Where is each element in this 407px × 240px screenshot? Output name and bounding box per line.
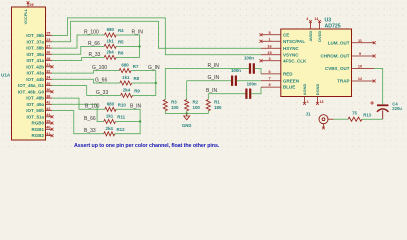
svg-text:680: 680: [107, 101, 115, 106]
AD725 pin 15 VSYNC: [261, 54, 281, 56]
resistor R2 100: [185, 100, 189, 111]
wire C2 to AD725 GREEN pin: [237, 80, 261, 82]
svg-text:B_66: B_66: [84, 116, 96, 122]
svg-text:100: 100: [171, 105, 179, 110]
resistor R10 680: [105, 107, 116, 111]
svg-text:100: 100: [193, 105, 201, 110]
svg-text:J1: J1: [306, 112, 311, 117]
svg-text:15: 15: [267, 51, 271, 55]
svg-text:100n: 100n: [244, 56, 254, 61]
resistor R5 1k1: [104, 44, 116, 48]
wire C1 to AD725 RED pin: [255, 69, 262, 74]
svg-text:8: 8: [268, 83, 270, 87]
junction R_IN bus: [138, 45, 140, 47]
no-connect X: [51, 65, 54, 68]
svg-text:43: 43: [46, 107, 50, 111]
svg-text:1k1: 1k1: [107, 38, 115, 43]
svg-text:GND: GND: [182, 123, 191, 128]
U1A pin 23 IOT_37a: [46, 41, 53, 43]
svg-text:39: 39: [46, 119, 50, 123]
svg-text:IOT_41a: IOT_41a: [26, 58, 44, 63]
svg-text:C4: C4: [392, 101, 398, 106]
wire R2 to GND rail: [186, 111, 188, 114]
svg-text:G_66: G_66: [95, 77, 107, 83]
wire IOT_37a to AD725 HSYNC (top bus 2): [52, 21, 261, 48]
wire G_IN to R2 top: [186, 81, 188, 100]
svg-text:IOT_50b: IOT_50b: [26, 108, 44, 113]
U1A pin 27 IOT_38b: [46, 47, 53, 49]
U1A pin 25 IOT_36b: [46, 34, 53, 36]
U1A pin 40 RGB1: [46, 128, 53, 130]
svg-text:B_33: B_33: [84, 128, 96, 134]
svg-text:CHROM_OUT: CHROM_OUT: [321, 54, 350, 59]
svg-text:R6: R6: [118, 51, 124, 56]
svg-text:10: 10: [358, 65, 362, 69]
svg-text:1k1: 1k1: [122, 75, 130, 80]
U1A pin 42 IOT_49a: [46, 103, 53, 105]
svg-text:GREEN: GREEN: [283, 78, 299, 83]
no-connect X: [309, 20, 312, 23]
svg-text:41: 41: [46, 132, 50, 136]
no-connect X: [318, 20, 321, 23]
svg-text:IOT_43a: IOT_43a: [26, 71, 44, 76]
wire R_IN to R3 top: [164, 69, 166, 100]
AD725 pin 2 AGND (bottom): [303, 97, 305, 104]
svg-text:CE: CE: [283, 32, 289, 37]
no-connect X: [373, 55, 376, 58]
svg-text:R_IN: R_IN: [208, 63, 220, 69]
svg-text:DVDD: DVDD: [317, 31, 322, 42]
AD725 pin 13 DGND (bottom): [316, 97, 318, 104]
no-connect X: [373, 80, 376, 83]
svg-text:9: 9: [359, 52, 361, 56]
resistor R7 680: [119, 69, 131, 73]
wire G_IN bus (G group): [131, 71, 156, 96]
svg-text:2k4: 2k4: [106, 126, 114, 131]
no-connect X: [51, 122, 54, 125]
no-connect X: [260, 40, 263, 43]
svg-text:5: 5: [268, 31, 270, 35]
wire IOT_45a_G1 to R9 (net G_33): [52, 86, 121, 96]
wire R5 to R_IN bus: [116, 45, 139, 47]
svg-text:RED: RED: [283, 72, 293, 77]
svg-text:TRAP: TRAP: [337, 79, 349, 84]
U1A pin 36 IOT_46b_G0: [46, 91, 53, 93]
svg-text:R_IN: R_IN: [132, 29, 144, 35]
wire J1 to R13: [334, 118, 349, 120]
resistor R12 2k4: [104, 132, 115, 136]
svg-text:75: 75: [352, 111, 357, 116]
wire R_IN bus (R group): [116, 35, 140, 57]
svg-text:28: 28: [46, 57, 50, 61]
ground symbol GND: [184, 113, 190, 119]
capacitor C4 220u polarized: [377, 103, 388, 108]
svg-text:IOT_46b_G0: IOT_46b_G0: [18, 89, 45, 94]
AD725 pin 10 CVBS_OUT: [352, 67, 375, 69]
wire IOT_44b to R8 (net G_66): [52, 79, 120, 83]
svg-text:IOT_42b: IOT_42b: [26, 64, 44, 69]
svg-text:R8: R8: [134, 76, 140, 81]
svg-text:IOT_39a: IOT_39a: [26, 52, 44, 57]
resistor R4 680: [105, 33, 117, 37]
wire IOT_38b to R4 (net R_100): [52, 35, 105, 48]
capacitor C2 100n (G channel): [232, 76, 236, 86]
svg-text:26: 26: [46, 51, 50, 55]
wire net B_IN to C3: [208, 93, 246, 95]
AD725 pin 11 LUM_OUT: [352, 42, 375, 44]
U1A pin 38 IOT_48b: [46, 97, 53, 99]
svg-text:IOT_48b: IOT_48b: [26, 96, 44, 101]
svg-text:BLUE: BLUE: [283, 85, 295, 90]
AD725 pin 12 TRAP: [352, 80, 375, 82]
svg-text:R9: R9: [134, 89, 140, 94]
svg-text:6: 6: [268, 70, 270, 74]
svg-text:220u: 220u: [392, 106, 402, 111]
svg-text:R2: R2: [193, 99, 199, 104]
U1A pin 41 RGB2: [46, 134, 53, 136]
svg-text:G_IN: G_IN: [148, 65, 160, 71]
svg-text:R_100: R_100: [84, 29, 99, 35]
no-connect X: [260, 59, 263, 62]
AD725 pin 3 4FSC_CLK: [261, 60, 281, 62]
AD725 pin 6 RED: [261, 73, 281, 75]
svg-text:HSYNC: HSYNC: [283, 46, 300, 51]
no-connect X: [316, 102, 319, 105]
no-connect X: [373, 41, 376, 44]
svg-text:RGB1: RGB1: [31, 127, 44, 132]
svg-text:R13: R13: [363, 112, 371, 117]
svg-text:1: 1: [268, 37, 270, 41]
svg-text:23: 23: [46, 38, 50, 42]
svg-text:G_33: G_33: [96, 90, 108, 96]
svg-text:VSYNC: VSYNC: [283, 52, 299, 57]
svg-text:R12: R12: [117, 127, 126, 132]
svg-text:U1A: U1A: [1, 73, 11, 78]
svg-text:100n: 100n: [231, 68, 241, 73]
no-connect X: [51, 115, 54, 118]
svg-text:3: 3: [268, 57, 270, 61]
svg-text:13: 13: [320, 100, 324, 104]
wire B_IN to R1 top: [207, 94, 209, 100]
wire IOT_36b to AD725 VSYNC (top bus 1): [52, 18, 261, 55]
no-connect X: [303, 102, 306, 105]
U1A pin 31 IOT_42b: [46, 66, 53, 68]
svg-text:16: 16: [267, 44, 271, 48]
connector J1 RCA jack: [319, 115, 328, 124]
svg-text:36: 36: [46, 88, 50, 92]
svg-text:38: 38: [46, 94, 50, 98]
svg-text:7: 7: [268, 77, 270, 81]
junction G_IN bus: [155, 82, 157, 84]
svg-text:IOT_37a: IOT_37a: [26, 39, 44, 44]
U1A pin 35 IOT_45a_G1: [46, 84, 53, 86]
video encoder U3 AD725 body: [281, 29, 352, 97]
svg-text:Assert up to one pin per color: Assert up to one pin per color channel, …: [74, 143, 220, 149]
svg-text:14: 14: [314, 17, 318, 21]
resistor R11 1k1: [104, 119, 116, 123]
U1A pin 26 IOT_39a: [46, 53, 53, 55]
capacitor C1 100n (R channel): [250, 63, 254, 73]
svg-text:NTSC/PAL: NTSC/PAL: [283, 39, 305, 44]
svg-text:680: 680: [121, 63, 129, 68]
no-connect X on U1A top pin: [27, 1, 30, 4]
wire R13 to C4 bottom: [362, 118, 383, 120]
wire IOT_39a to R5 (net R_66): [52, 46, 104, 54]
svg-text:12: 12: [358, 77, 362, 81]
AD725 pin 8 BLUE: [261, 86, 281, 88]
resistor R1 180: [206, 100, 210, 111]
U1A pin 32 IOT_43a: [46, 72, 53, 74]
svg-text:R4: R4: [118, 28, 124, 33]
svg-text:IOT_45a_G1: IOT_45a_G1: [18, 83, 45, 88]
resistor R9 2k4: [121, 93, 133, 97]
svg-text:AD725: AD725: [325, 23, 341, 29]
capacitor C3 100n (B channel): [246, 89, 250, 99]
no-connect X: [51, 90, 54, 93]
U1A pin 39 RGB0: [46, 122, 53, 124]
U1A pin 28 IOT_41a: [46, 59, 53, 61]
svg-text:R10: R10: [118, 103, 127, 108]
AD725 pin 7 GREEN: [261, 80, 281, 82]
wire R11 to B_IN bus: [116, 120, 141, 122]
no-connect X: [51, 134, 54, 137]
AD725 pin 16 HSYNC: [261, 47, 281, 49]
svg-text:4: 4: [306, 17, 308, 21]
wire net G_IN to C2: [187, 80, 232, 82]
svg-text:2k4: 2k4: [123, 87, 131, 92]
no-connect X: [260, 33, 263, 36]
svg-text:31: 31: [46, 63, 50, 67]
svg-text:G_100: G_100: [92, 65, 107, 71]
AD725 pin 9 CHROM_OUT: [352, 55, 375, 57]
svg-text:IOT_38b: IOT_38b: [26, 46, 44, 51]
wire IOT_50b to R12 (net B_33): [52, 111, 104, 134]
U1A pin 44 IOT_51a: [46, 116, 53, 118]
svg-text:29: 29: [30, 3, 34, 7]
resistor R6 2k4: [104, 55, 116, 59]
svg-text:1k1: 1k1: [106, 114, 114, 119]
resistor R3 100: [163, 100, 167, 111]
svg-text:R1: R1: [214, 99, 220, 104]
svg-text:27: 27: [46, 44, 50, 48]
wire IOT_41a to R6 (net R_33): [52, 57, 104, 60]
svg-text:2: 2: [307, 100, 309, 104]
AD725 pin 5 CE: [261, 34, 281, 36]
svg-text:VCCPLL: VCCPLL: [23, 8, 28, 24]
svg-text:180: 180: [214, 105, 222, 110]
svg-text:RGB0: RGB0: [31, 121, 44, 126]
svg-text:RGB2: RGB2: [31, 133, 44, 138]
junction GND rail: [186, 112, 188, 114]
wire IOT_49a to R11 (net B_66): [52, 104, 104, 121]
svg-text:B_IN: B_IN: [130, 104, 142, 110]
svg-text:R3: R3: [171, 99, 177, 104]
svg-text:IOT_49a: IOT_49a: [26, 102, 44, 107]
AD725 pin 4 AVDD (top): [309, 22, 311, 30]
wire IOT_43a to R7 (net G_100): [52, 71, 119, 74]
svg-text:42: 42: [46, 101, 50, 105]
U1A pin 43 IOT_50b: [46, 109, 53, 111]
wire CVBS_OUT to C4: [374, 69, 383, 105]
wire B_IN bus (B group): [115, 109, 140, 134]
svg-text:G_IN: G_IN: [208, 75, 220, 81]
svg-text:IOT_44b: IOT_44b: [26, 77, 44, 82]
svg-text:IOT_36b: IOT_36b: [26, 33, 44, 38]
wire net R_IN to C1: [165, 67, 249, 69]
U1A pin 34 IOT_44b: [46, 78, 53, 80]
svg-text:25: 25: [46, 32, 50, 36]
svg-text:IOT_51a: IOT_51a: [26, 114, 44, 119]
FPGA U1A body: [12, 7, 46, 140]
svg-text:LUM_OUT: LUM_OUT: [328, 40, 350, 45]
U1A top pin VCCPLL pin 29: [27, 3, 29, 7]
svg-text:U3: U3: [325, 18, 332, 24]
svg-text:100n: 100n: [247, 82, 257, 87]
wire GND rail: [165, 111, 208, 114]
AD725 pin 14 DVDD (top): [318, 22, 320, 30]
svg-text:DGND: DGND: [315, 84, 320, 96]
AD725 pin 1 NTSC/PAL: [261, 40, 281, 42]
wire C3 to AD725 BLUE pin: [251, 87, 261, 94]
resistor R8 1k1: [120, 81, 132, 85]
wire R8 to G_IN bus: [132, 82, 156, 84]
svg-text:680: 680: [107, 27, 115, 32]
resistor R13 75: [348, 117, 362, 121]
svg-text:R5: R5: [118, 40, 124, 45]
svg-text:B_100: B_100: [85, 104, 100, 110]
svg-text:35: 35: [46, 82, 50, 86]
no-connect X on J1 shield: [322, 127, 325, 130]
svg-text:11: 11: [358, 39, 362, 43]
svg-text:2k4: 2k4: [106, 49, 114, 54]
svg-text:4FSC_CLK: 4FSC_CLK: [283, 58, 307, 63]
svg-text:R7: R7: [133, 64, 139, 69]
svg-text:CVBS_OUT: CVBS_OUT: [325, 66, 350, 71]
svg-text:40: 40: [46, 126, 50, 130]
svg-text:AGND: AGND: [302, 84, 307, 96]
svg-text:R11: R11: [117, 115, 125, 120]
svg-text:R_66: R_66: [88, 41, 100, 47]
svg-text:AVDD: AVDD: [308, 31, 313, 42]
junction B_IN bus: [139, 120, 141, 122]
no-connect X: [51, 128, 54, 131]
wire IOT_48b to R10 (net B_100): [52, 98, 105, 109]
svg-text:B_IN: B_IN: [206, 88, 218, 94]
svg-text:32: 32: [46, 69, 50, 73]
svg-text:R_33: R_33: [89, 52, 101, 58]
